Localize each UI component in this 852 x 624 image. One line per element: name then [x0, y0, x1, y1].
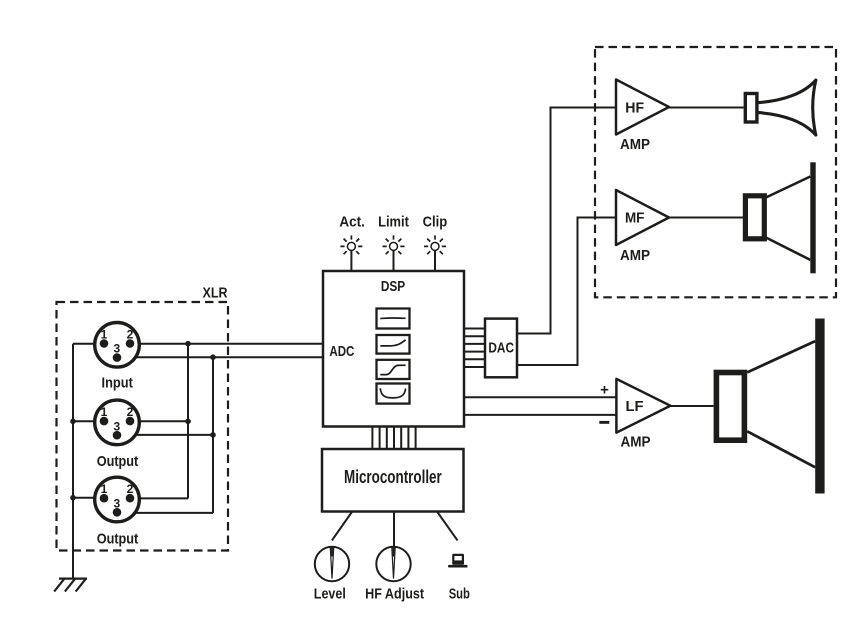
filter icon 2 (high shelf) — [377, 335, 410, 354]
wire output1 pin1 — [73, 420, 104, 422]
filter icon 1 (flat response) — [377, 309, 410, 329]
svg-text:1: 1 — [101, 327, 108, 341]
filter icon 3 (step/crossover) — [377, 360, 410, 379]
dashed enclosure HF/MF speaker cabinet — [595, 47, 836, 297]
wire Microcontroller to HF Adjust knob — [393, 512, 395, 548]
wire cold link vertical — [212, 357, 214, 513]
wire input pin3 to ADC (cold) — [117, 356, 323, 358]
svg-text:2: 2 — [127, 482, 134, 496]
svg-text:LF: LF — [626, 398, 644, 415]
junction output2 pin1 — [70, 495, 76, 501]
filter icon 4 (notch/dip) — [377, 384, 410, 404]
svg-text:+: + — [600, 382, 609, 399]
wire hot link vertical — [187, 344, 189, 499]
LED Clip stem wire — [434, 250, 436, 271]
label minus — [599, 421, 609, 424]
svg-text:HF Adjust: HF Adjust — [365, 585, 424, 602]
amplifier LF AMP — [616, 379, 670, 433]
svg-text:Sub: Sub — [449, 585, 470, 602]
svg-text:Microcontroller: Microcontroller — [344, 466, 442, 487]
block Microcontroller — [322, 449, 464, 512]
svg-text:2: 2 — [127, 405, 134, 419]
LED Limit — [383, 235, 405, 254]
wire DAC to MF amp — [517, 218, 616, 366]
bus DSP to DAC — [464, 329, 485, 368]
svg-text:AMP: AMP — [620, 247, 650, 264]
amplifier MF AMP — [616, 190, 669, 245]
amplifier HF AMP — [616, 80, 669, 135]
svg-text:Act.: Act. — [339, 213, 365, 230]
block DSP — [323, 271, 464, 427]
svg-text:Input: Input — [102, 374, 133, 391]
wire output1 pin2 — [130, 420, 188, 422]
LED Act. — [340, 235, 362, 254]
icon Sub computer — [448, 554, 468, 568]
wire output2 pin3 — [117, 512, 213, 514]
wire input pin1 — [73, 343, 104, 345]
wire Microcontroller to Level knob — [332, 512, 352, 541]
wire output2 pin1 — [73, 497, 104, 499]
wire output2 pin2 — [130, 497, 188, 499]
junction input hot — [185, 341, 191, 347]
svg-text:1: 1 — [101, 482, 108, 496]
speaker MF driver — [745, 162, 815, 273]
connector XLR Input — [95, 323, 140, 368]
junction output1 pin1 — [70, 419, 76, 425]
svg-text:1: 1 — [101, 405, 108, 419]
junction input cold — [210, 354, 216, 360]
speaker LF woofer — [716, 319, 824, 494]
svg-text:Clip: Clip — [423, 213, 448, 230]
LED Limit stem wire — [393, 250, 395, 271]
svg-text:Output: Output — [97, 530, 139, 547]
wire MF amp to speaker — [669, 217, 744, 219]
wire DAC to HF amp — [517, 108, 616, 334]
svg-text:XLR: XLR — [203, 285, 228, 302]
svg-text:AMP: AMP — [620, 434, 650, 451]
block DAC — [485, 319, 517, 378]
wire input pin2 to ADC (hot) — [130, 343, 323, 345]
svg-text:ADC: ADC — [329, 343, 354, 360]
svg-text:DSP: DSP — [381, 278, 405, 295]
knob HF Adjust — [376, 547, 410, 581]
bus DSP to Microcontroller — [372, 427, 415, 450]
svg-text:Output: Output — [97, 453, 139, 470]
knob Level — [315, 547, 349, 581]
ground chassis symbol — [54, 579, 87, 592]
wire DSP to LF amp - — [464, 414, 616, 416]
wire output1 pin3 — [117, 434, 213, 436]
junction output1 cold — [210, 432, 216, 438]
svg-text:2: 2 — [127, 327, 134, 341]
svg-text:Limit: Limit — [378, 213, 409, 230]
wire HF amp to horn — [669, 107, 744, 109]
dashed enclosure XLR panel — [57, 302, 229, 551]
speaker HF horn tweeter — [745, 80, 816, 135]
svg-text:3: 3 — [113, 419, 120, 433]
svg-text:Level: Level — [314, 585, 346, 602]
svg-text:DAC: DAC — [488, 340, 514, 357]
junction output1 hot — [185, 419, 191, 425]
svg-text:3: 3 — [113, 496, 120, 510]
wire Microcontroller to Sub — [437, 512, 458, 541]
LED Clip — [424, 235, 446, 254]
svg-text:HF: HF — [625, 99, 644, 116]
wire DSP to LF amp + — [464, 396, 616, 398]
LED Act. stem wire — [350, 250, 352, 271]
connector XLR Output 1 — [95, 400, 140, 445]
connector XLR Output 2 — [95, 477, 140, 522]
wire ground bus (pin-1 bus) — [72, 344, 74, 579]
svg-text:MF: MF — [625, 209, 645, 226]
svg-text:AMP: AMP — [620, 136, 650, 153]
svg-text:3: 3 — [113, 342, 120, 356]
wire LF amp to woofer — [670, 405, 713, 407]
